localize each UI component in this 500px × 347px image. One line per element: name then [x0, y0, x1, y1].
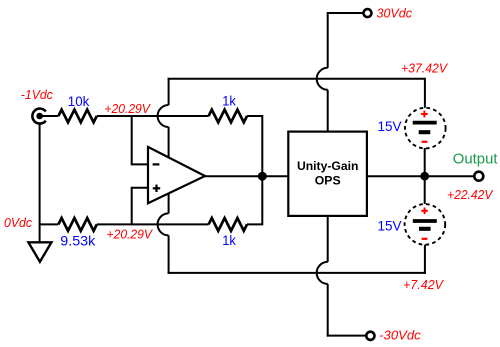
wire output node to lower source: [424, 176, 426, 204]
wire upper source to output node: [424, 148, 426, 176]
svg-text:1k: 1k: [222, 233, 236, 248]
wire rise to non-inverting input: [132, 188, 148, 225]
wire node A: 10k to 1k top: [97, 115, 209, 117]
wire OPS output to terminal: [367, 175, 475, 177]
svg-text:OPS: OPS: [315, 173, 341, 187]
wire terminal down to ground node: [39, 124, 41, 243]
wire OPS bottom to -30Vdc with hop over bottom rail: [317, 216, 328, 337]
V1 short plate: [419, 130, 431, 134]
V1 long plate: [413, 121, 437, 125]
V2 plus mark: [421, 208, 428, 215]
wire drop to inverting input: [132, 116, 148, 164]
junction dot op-amp output node: [258, 172, 267, 181]
wire +30Vdc supply down to OPS top with hop over rail: [317, 13, 328, 132]
junction dot output node: [420, 172, 429, 181]
source V1 15V upper (dashed circle): [405, 108, 446, 149]
svg-text:+37.42V: +37.42V: [401, 62, 449, 76]
svg-text:0Vdc: 0Vdc: [4, 216, 33, 230]
svg-text:+7.42V: +7.42V: [403, 278, 445, 292]
V2 minus mark: [422, 238, 428, 240]
svg-text:1k: 1k: [222, 94, 236, 109]
svg-text:+20.29V: +20.29V: [104, 102, 151, 116]
wire 1k bottom to feedback vertical: [247, 176, 262, 224]
terminal J1 input (open circle with center dot): [32, 109, 45, 124]
ground: [28, 242, 51, 261]
block Unity-Gain OPS: [288, 132, 367, 216]
source V2 15V lower (dashed circle): [405, 204, 446, 245]
V1 plus mark: [421, 111, 428, 118]
wire op-amp bootstrap supply vertical with hops: [158, 78, 169, 274]
wire node B to 1k bottom: [97, 223, 209, 225]
svg-text:30Vdc: 30Vdc: [377, 7, 413, 21]
resistor R2 9.53k: [58, 218, 96, 231]
wire rail down to upper source: [424, 78, 426, 108]
op-amp minus sign: [153, 163, 160, 165]
svg-text:15V: 15V: [378, 119, 402, 134]
svg-text:+20.29V: +20.29V: [107, 228, 154, 242]
op-amp U1: [148, 147, 205, 203]
wire to 30Vdc terminal: [327, 12, 364, 14]
V1 minus mark: [422, 141, 428, 143]
wire 1k top to feedback vertical: [247, 116, 262, 176]
svg-text:Unity-Gain: Unity-Gain: [297, 159, 359, 173]
V2 long plate: [413, 219, 437, 223]
svg-text:+22.42V: +22.42V: [447, 188, 494, 202]
op-amp plus sign: [153, 185, 160, 192]
svg-text:Output: Output: [453, 151, 499, 168]
terminal 30Vdc: [364, 9, 372, 17]
svg-text:-1Vdc: -1Vdc: [21, 88, 54, 102]
wire node B: tee to 9.53k: [40, 223, 59, 225]
wire top bootstrap rail: [168, 78, 425, 80]
terminal Output: [474, 172, 483, 181]
svg-text:-30Vdc: -30Vdc: [379, 329, 421, 343]
svg-text:9.53k: 9.53k: [60, 233, 95, 248]
wire bottom bootstrap rail: [168, 272, 426, 274]
svg-text:15V: 15V: [378, 219, 402, 234]
wire op-amp output to OPS block: [205, 175, 288, 177]
wire lower source to bottom rail: [424, 245, 426, 274]
resistor R4 1k (bottom feedback): [209, 218, 247, 231]
terminal -30Vdc: [366, 332, 374, 340]
resistor R3 1k (top feedback): [209, 110, 247, 123]
wire terminal to 10k: [41, 115, 58, 117]
wire to -30Vdc terminal: [327, 335, 367, 337]
resistor R1 10k: [58, 110, 96, 123]
svg-text:10k: 10k: [68, 94, 90, 109]
V2 short plate: [419, 227, 431, 231]
